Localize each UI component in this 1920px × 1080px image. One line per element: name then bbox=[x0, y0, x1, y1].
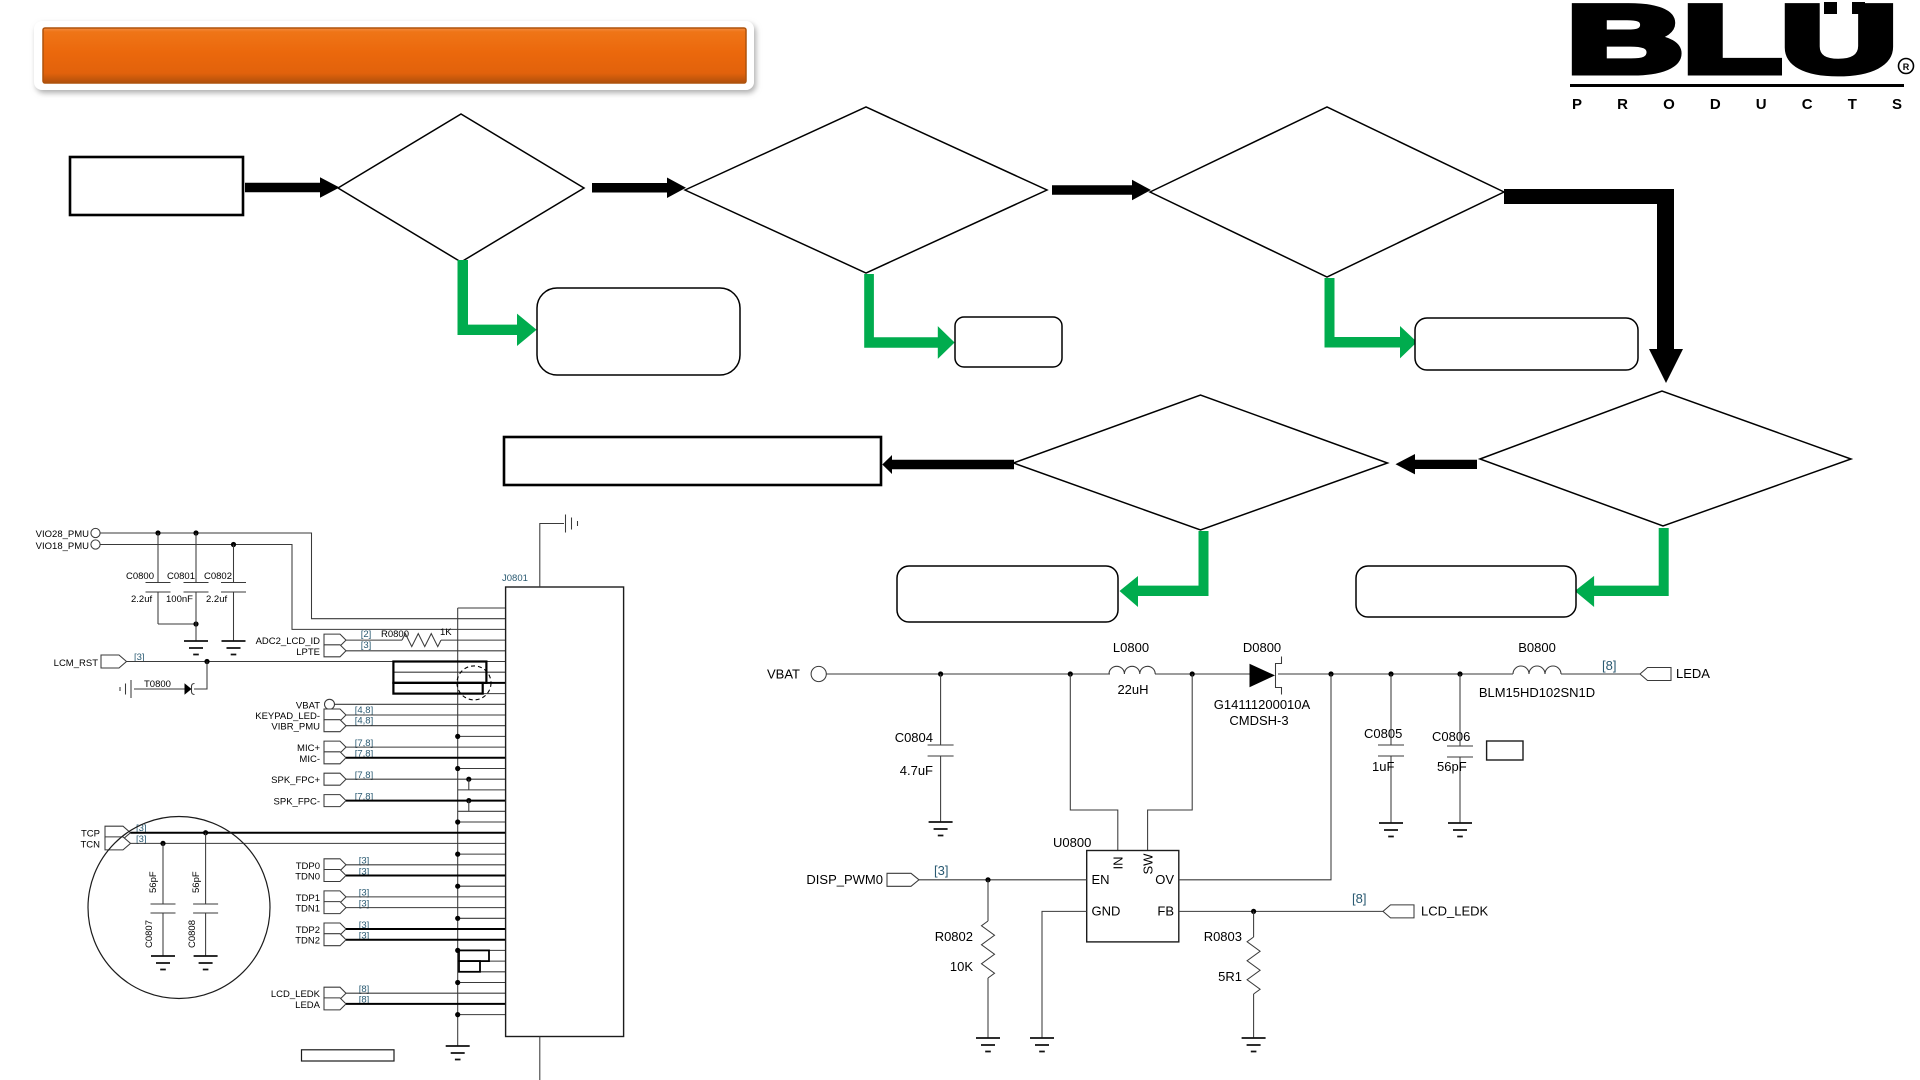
capacitor C0808 bbox=[187, 833, 218, 956]
BLU logo wordmark bbox=[1567, 0, 1897, 93]
svg-text:LEDA: LEDA bbox=[1676, 666, 1710, 681]
svg-text:LCM_RST: LCM_RST bbox=[54, 658, 99, 669]
flowchart decision diamond 1 bbox=[338, 114, 584, 262]
capacitor C0800 bbox=[126, 533, 196, 624]
ground for C0808 bbox=[194, 956, 218, 970]
wire LPTE to J0801 bbox=[346, 650, 506, 652]
svg-text:C0806: C0806 bbox=[1432, 729, 1470, 744]
svg-text:MIC+: MIC+ bbox=[297, 743, 320, 754]
capacitor C0802 bbox=[204, 545, 246, 642]
svg-text:TCN: TCN bbox=[80, 839, 100, 850]
svg-text:10K: 10K bbox=[950, 959, 973, 974]
wire LCD_LEDK to J0801 bbox=[346, 992, 506, 994]
wire VBAT rail bbox=[826, 673, 1192, 675]
wire L0800 to D0800 bbox=[1192, 673, 1249, 675]
IC U0800 bbox=[1053, 835, 1179, 942]
ground for C0800/C0801 bbox=[184, 641, 208, 655]
wire VBAT to J0801 bbox=[335, 703, 506, 705]
svg-text:4.7uF: 4.7uF bbox=[900, 763, 933, 778]
svg-text:ADC2_LCD_ID: ADC2_LCD_ID bbox=[256, 636, 321, 647]
BLU logo underline bbox=[1570, 84, 1904, 87]
flowchart arrow 4 to diamond 5 bbox=[1396, 454, 1478, 474]
net flag LCM_RST bbox=[54, 652, 145, 669]
wire SPK_FPC+ to J0801 bbox=[346, 778, 506, 780]
flowchart decision diamond 3 bbox=[1150, 107, 1504, 277]
svg-text:TDN2: TDN2 bbox=[295, 936, 320, 947]
flowchart green arrow 4 bbox=[1575, 528, 1669, 607]
ground for C0805 bbox=[1379, 823, 1403, 837]
svg-text:BLU: BLU bbox=[1567, 0, 1897, 93]
wire rail to U0800 IN bbox=[1070, 674, 1118, 851]
ground for U0800 GND bbox=[1030, 1038, 1054, 1052]
wire J0801 pin row y=768.5 bbox=[458, 768, 506, 770]
net flag ADC2_LCD_ID bbox=[256, 629, 372, 647]
svg-text:[4,8]: [4,8] bbox=[355, 705, 374, 716]
net flag TDN2 bbox=[295, 931, 369, 947]
svg-text:VIO18_PMU: VIO18_PMU bbox=[36, 541, 89, 552]
net flag TCP bbox=[81, 823, 147, 840]
wire J0801 top pin to ground bbox=[540, 524, 564, 588]
svg-text:BLM15HD102SN1D: BLM15HD102SN1D bbox=[1479, 685, 1595, 700]
wire J0801 pin row y=1014.6 bbox=[458, 1014, 506, 1016]
wire J0801 pin row y=736.4 bbox=[458, 735, 506, 737]
wire resistor to J0801 bbox=[441, 639, 506, 641]
svg-text:[4,8]: [4,8] bbox=[355, 716, 374, 727]
net flag TDP2 bbox=[296, 920, 370, 936]
net flag TDP1 bbox=[296, 888, 370, 904]
svg-text:VBAT: VBAT bbox=[767, 666, 800, 681]
wire LCM_RST tap down to T0800 bbox=[194, 662, 207, 690]
ground for C0802 bbox=[222, 641, 246, 655]
wire J0801 pin row y=789.9 bbox=[458, 789, 506, 791]
wire J0801 pin row y=950.4 bbox=[458, 949, 506, 951]
svg-text:[8]: [8] bbox=[1602, 658, 1616, 673]
svg-text:C0807: C0807 bbox=[144, 920, 155, 948]
svg-text:DISP_PWM0: DISP_PWM0 bbox=[806, 872, 883, 887]
empty option box right of C0806 bbox=[1487, 741, 1523, 760]
svg-text:22uH: 22uH bbox=[1117, 682, 1148, 697]
svg-text:FB: FB bbox=[1157, 904, 1174, 919]
capacitor C0804 4.7uF bbox=[895, 674, 954, 822]
svg-text:LCD_LEDK: LCD_LEDK bbox=[271, 989, 321, 1000]
svg-text:B0800: B0800 bbox=[1518, 640, 1556, 655]
svg-text:CMDSH-3: CMDSH-3 bbox=[1229, 713, 1288, 728]
wire J0801 pin row y=971.8 bbox=[458, 971, 506, 973]
node VBAT terminal (connector side) bbox=[296, 699, 335, 711]
wire J0801 pin row y=822 bbox=[458, 821, 506, 823]
flowchart thick elbow arrow down bbox=[1504, 189, 1683, 383]
svg-text:C0800: C0800 bbox=[126, 571, 154, 582]
flowchart result box row 2 bbox=[504, 437, 881, 485]
net flag LCD_LEDK bbox=[1352, 891, 1489, 918]
svg-text:5R1: 5R1 bbox=[1218, 969, 1242, 984]
wire TDP1 to J0801 bbox=[346, 896, 506, 898]
svg-text:D0800: D0800 bbox=[1243, 640, 1281, 655]
capacitor C0801 bbox=[166, 533, 209, 641]
svg-text:J0801: J0801 bbox=[502, 573, 528, 584]
ground right of J0801 top pin bbox=[566, 515, 578, 533]
svg-text:LPTE: LPTE bbox=[296, 647, 320, 658]
svg-text:1K: 1K bbox=[440, 627, 452, 638]
junction dots on supply wires bbox=[155, 530, 160, 535]
svg-text:OV: OV bbox=[1155, 872, 1174, 887]
net flag TCN bbox=[80, 834, 146, 851]
wire rail to U0800 SW bbox=[1148, 674, 1193, 851]
BLU logo registered mark bbox=[1899, 59, 1914, 74]
flowchart rounded action box 1 bbox=[537, 288, 740, 375]
svg-text:TDN0: TDN0 bbox=[295, 872, 320, 883]
flowchart green arrow 2 bbox=[864, 274, 954, 359]
flowchart green arrow 3 bbox=[1325, 278, 1418, 358]
svg-text:R: R bbox=[1903, 62, 1910, 72]
svg-text:56pF: 56pF bbox=[1437, 759, 1467, 774]
wire SPK_FPC+ jog bbox=[468, 779, 470, 790]
net flag VIBR_PMU bbox=[271, 720, 346, 733]
wire TDN0 to J0801 bbox=[346, 875, 506, 877]
svg-text:T0800: T0800 bbox=[144, 679, 171, 690]
svg-text:C0804: C0804 bbox=[895, 730, 933, 745]
wire J0801 pin row y=672.2 bbox=[393, 671, 505, 673]
wire J0801 bottom pin bbox=[539, 1037, 541, 1080]
empty reference box bottom left bbox=[302, 1050, 395, 1061]
varistor T0800 bbox=[134, 679, 195, 695]
net flag MIC+ bbox=[297, 738, 373, 754]
junction dots on ground bus bbox=[455, 734, 460, 1017]
wire VIO28_PMU to J0801 bbox=[100, 533, 506, 619]
svg-text:EN: EN bbox=[1092, 872, 1110, 887]
svg-text:LCD_LEDK: LCD_LEDK bbox=[1421, 903, 1489, 918]
svg-text:VIBR_PMU: VIBR_PMU bbox=[271, 722, 320, 733]
net flag KEYPAD_LED- bbox=[255, 709, 346, 722]
svg-text:KEYPAD_LED-: KEYPAD_LED- bbox=[255, 711, 320, 722]
resistor R0803 5R1 bbox=[1204, 911, 1260, 1038]
wire J0801 pin row y=961.1 bbox=[458, 960, 506, 962]
wire J0801 pin row y=982.5 bbox=[458, 982, 506, 984]
svg-text:1uF: 1uF bbox=[1372, 759, 1394, 774]
svg-text:C0805: C0805 bbox=[1364, 726, 1402, 741]
flowchart arrow 2 bbox=[592, 178, 686, 199]
wire LCM_RST to J0801 bbox=[127, 661, 506, 663]
resistor R0800 1K bbox=[381, 627, 452, 647]
wire J0801 pin row y=886.2 bbox=[458, 885, 506, 887]
svg-text:TCP: TCP bbox=[81, 829, 100, 840]
capacitor C0805 1uF bbox=[1364, 674, 1404, 823]
ground left of T0800 bbox=[120, 680, 131, 698]
svg-text:SPK_FPC+: SPK_FPC+ bbox=[271, 775, 320, 786]
svg-text:VBAT: VBAT bbox=[296, 700, 320, 711]
ground at bottom of bus bbox=[446, 1046, 470, 1060]
node VIO18_PMU terminal bbox=[36, 540, 100, 552]
diode D0800 CMDSH-3 bbox=[1214, 640, 1311, 728]
svg-text:TDP2: TDP2 bbox=[296, 925, 320, 936]
wire LEDA to J0801 bbox=[346, 1003, 506, 1005]
svg-text:GND: GND bbox=[1092, 904, 1121, 919]
svg-text:[2]: [2] bbox=[361, 629, 372, 640]
inductor L0800 22uH bbox=[1070, 640, 1192, 697]
ground for C0804 bbox=[929, 822, 953, 836]
net flag LEDA bbox=[295, 995, 369, 1011]
net flag SPK_FPC+ bbox=[271, 770, 373, 786]
flowchart rounded action box 4 bbox=[1356, 566, 1576, 617]
svg-text:LEDA: LEDA bbox=[295, 1000, 320, 1011]
flowchart decision diamond 4 bbox=[1480, 391, 1851, 526]
resistor R0802 10K bbox=[935, 880, 995, 1038]
title banner frame bbox=[34, 21, 754, 90]
wire TCN to J0801 bbox=[131, 842, 506, 844]
wire J0801 pin row y=918.3 bbox=[458, 917, 506, 919]
net flag TDP0 bbox=[296, 856, 370, 872]
flowchart rounded action box 3 bbox=[1415, 318, 1638, 370]
svg-text:SPK_FPC-: SPK_FPC- bbox=[274, 797, 320, 808]
svg-text:TDN1: TDN1 bbox=[295, 904, 320, 915]
vertical ground bus left of J0801 bbox=[457, 608, 459, 1046]
wire SPK_FPC- jog bbox=[468, 801, 470, 812]
wire VIO18_PMU to J0801 bbox=[100, 545, 506, 630]
wire ADC2_LCD_ID to resistor bbox=[346, 639, 402, 641]
highlight circle around C0807/C0808 bbox=[88, 817, 270, 999]
wire MIC+ to J0801 bbox=[346, 746, 506, 748]
svg-text:MIC-: MIC- bbox=[299, 754, 320, 765]
wire KEYPAD_LED- to J0801 bbox=[346, 714, 506, 716]
junction dots on VBAT rail bbox=[938, 671, 1463, 676]
svg-text:56pF: 56pF bbox=[148, 871, 159, 893]
capacitor C0806 56pF bbox=[1432, 674, 1473, 823]
wire J0801 pin row y=693.6 bbox=[393, 693, 505, 695]
flowchart rounded action box 5 bbox=[897, 566, 1118, 622]
net flag LPTE bbox=[296, 640, 371, 658]
wire SPK_FPC- to J0801 bbox=[346, 800, 506, 802]
net flag TDN0 bbox=[295, 866, 369, 882]
wire TDP0 to J0801 bbox=[346, 864, 506, 866]
wire U0800 GND to ground bbox=[1042, 911, 1087, 1038]
net flag SPK_FPC- bbox=[274, 791, 374, 807]
dashed highlight circle on pins bbox=[457, 666, 491, 700]
node VIO28_PMU terminal bbox=[36, 528, 100, 540]
wire B0800 to LEDA bbox=[1561, 673, 1640, 675]
svg-text:C0808: C0808 bbox=[187, 920, 198, 948]
svg-text:100nF: 100nF bbox=[166, 594, 193, 605]
svg-text:[3]: [3] bbox=[934, 863, 948, 878]
flowchart decision diamond 2 bbox=[685, 107, 1047, 273]
wire J0801 pin row y=854.1 bbox=[458, 853, 506, 855]
flowchart green arrow 1 bbox=[458, 260, 537, 346]
flowchart arrow 1 bbox=[245, 177, 340, 197]
wire D0800 to B0800 bbox=[1278, 673, 1513, 675]
net flag LEDA bbox=[1602, 658, 1710, 681]
wire U0800 FB to LCD_LEDK bbox=[1179, 910, 1383, 912]
wire TDN1 to J0801 bbox=[346, 907, 506, 909]
svg-text:L0800: L0800 bbox=[1113, 640, 1149, 655]
small highlight rect near TDN2 pins (lower) bbox=[459, 961, 480, 972]
svg-text:TDP0: TDP0 bbox=[296, 861, 320, 872]
svg-text:U0800: U0800 bbox=[1053, 835, 1091, 850]
ground for C0806 bbox=[1448, 823, 1472, 837]
title banner orange bar bbox=[43, 28, 746, 83]
wire U0800 OV to rail bbox=[1179, 674, 1331, 880]
svg-text:2.2uf: 2.2uf bbox=[206, 594, 227, 605]
net flag DISP_PWM0 bbox=[806, 863, 948, 887]
svg-text:VIO28_PMU: VIO28_PMU bbox=[36, 529, 89, 540]
flowchart arrow 3 bbox=[1052, 180, 1151, 200]
small highlight rect near TDN2 pins (upper) bbox=[459, 950, 489, 961]
svg-text:2.2uf: 2.2uf bbox=[131, 594, 152, 605]
node VBAT terminal (boost circuit) bbox=[767, 666, 826, 681]
svg-text:C0801: C0801 bbox=[167, 571, 195, 582]
wire J0801 pin row y=811.3 bbox=[458, 810, 506, 812]
flowchart arrow 5 to result box bbox=[882, 455, 1014, 474]
ground for R0803 bbox=[1242, 1038, 1266, 1052]
net flag LCD_LEDK bbox=[271, 984, 369, 1000]
flowchart start box bbox=[70, 157, 243, 215]
wire TDN2 to J0801 bbox=[346, 939, 506, 941]
flowchart green arrow 5 bbox=[1120, 531, 1209, 607]
wire VIBR_PMU to J0801 bbox=[346, 725, 506, 727]
wire DISP_PWM0 to EN bbox=[919, 879, 1087, 881]
highlight rectangle over LCD pins (upper) bbox=[393, 662, 486, 683]
wire J0801 pin row y=608 bbox=[458, 607, 506, 609]
flowchart decision diamond 5 bbox=[1014, 395, 1388, 530]
wire J0801 pin row y=682.9 bbox=[393, 682, 505, 684]
ferrite bead B0800 bbox=[1479, 640, 1595, 700]
wire MIC- to J0801 bbox=[346, 757, 506, 759]
svg-text:[3]: [3] bbox=[361, 640, 372, 651]
svg-text:R0803: R0803 bbox=[1204, 929, 1242, 944]
svg-text:G14111200010A: G14111200010A bbox=[1214, 697, 1311, 712]
connector J0801 body bbox=[502, 573, 624, 1037]
flowchart rounded action box 2 bbox=[955, 317, 1062, 367]
ground for R0802 bbox=[976, 1038, 1000, 1052]
svg-text:C0802: C0802 bbox=[204, 571, 232, 582]
svg-text:56pF: 56pF bbox=[191, 871, 202, 893]
wire TCP to J0801 bbox=[131, 832, 506, 834]
wire TDP2 to J0801 bbox=[346, 928, 506, 930]
svg-text:R0802: R0802 bbox=[935, 929, 973, 944]
svg-text:IN: IN bbox=[1111, 857, 1126, 870]
capacitor C0807 bbox=[144, 843, 176, 956]
highlight rectangle over LCD pins (lower) bbox=[393, 683, 482, 694]
net flag TDN1 bbox=[295, 898, 369, 914]
svg-text:TDP1: TDP1 bbox=[296, 893, 320, 904]
svg-text:SW: SW bbox=[1141, 853, 1156, 875]
svg-text:[8]: [8] bbox=[1352, 891, 1366, 906]
net flag MIC- bbox=[299, 749, 373, 765]
ground for C0807 bbox=[151, 956, 175, 970]
